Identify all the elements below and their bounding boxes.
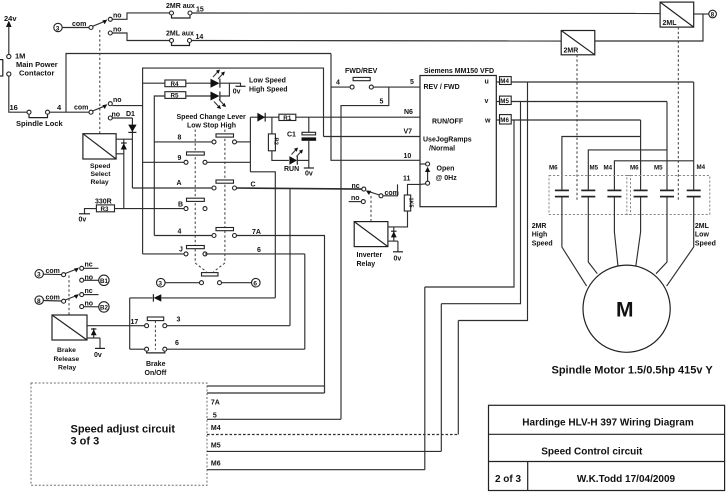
svg-text:no: no — [351, 195, 360, 202]
svg-text:16: 16 — [10, 103, 18, 112]
svg-text:Speed adjust circuit: Speed adjust circuit — [71, 424, 176, 436]
svg-text:4: 4 — [336, 80, 340, 87]
svg-text:0v: 0v — [305, 171, 313, 178]
svg-text:/Normal: /Normal — [429, 146, 455, 153]
svg-text:8: 8 — [178, 135, 182, 142]
svg-text:Select: Select — [91, 171, 112, 178]
svg-text:Brake: Brake — [57, 347, 76, 354]
svg-text:17: 17 — [131, 319, 139, 326]
svg-text:M6: M6 — [549, 165, 558, 172]
svg-text:1K5: 1K5 — [408, 198, 414, 208]
svg-text:3: 3 — [56, 25, 60, 32]
svg-text:24v: 24v — [4, 14, 17, 23]
svg-text:6: 6 — [175, 340, 179, 347]
svg-text:M4: M4 — [604, 165, 613, 172]
svg-text:M4: M4 — [211, 425, 221, 432]
svg-text:Brake: Brake — [146, 361, 166, 368]
svg-text:2ML: 2ML — [695, 223, 710, 230]
svg-text:no: no — [113, 13, 122, 20]
svg-text:M6: M6 — [211, 461, 221, 468]
svg-text:2 of 3: 2 of 3 — [495, 474, 522, 485]
svg-text:Low: Low — [695, 232, 710, 239]
svg-text:D1: D1 — [126, 111, 135, 118]
svg-text:Spindle Motor 1.5/0.5hp 415v: Spindle Motor 1.5/0.5hp 415v Y — [552, 365, 714, 377]
svg-text:High: High — [532, 232, 548, 239]
svg-text:Speed: Speed — [532, 240, 553, 247]
svg-text:M4: M4 — [500, 78, 509, 85]
svg-text:u: u — [485, 79, 489, 86]
svg-text:Relay: Relay — [91, 179, 109, 186]
svg-text:UseJogRamps: UseJogRamps — [423, 137, 472, 144]
svg-text:11: 11 — [403, 176, 411, 183]
svg-text:Low Stop High: Low Stop High — [187, 123, 236, 130]
svg-text:Inverter: Inverter — [357, 252, 383, 259]
svg-text:3 of 3: 3 of 3 — [71, 436, 100, 448]
svg-text:Release: Release — [54, 356, 80, 363]
svg-text:On/Off: On/Off — [145, 370, 167, 377]
svg-text:nc: nc — [85, 288, 93, 295]
svg-text:High Speed: High Speed — [249, 87, 288, 94]
svg-text:B: B — [178, 202, 183, 209]
svg-text:3: 3 — [158, 281, 162, 288]
svg-text:Speed: Speed — [90, 163, 110, 170]
svg-text:5: 5 — [213, 413, 217, 420]
svg-text:0v: 0v — [394, 256, 402, 263]
svg-text:com: com — [74, 105, 88, 112]
svg-text:M6: M6 — [630, 165, 639, 172]
svg-text:B2: B2 — [100, 305, 108, 312]
svg-text:5: 5 — [410, 79, 414, 86]
svg-text:M5: M5 — [211, 443, 221, 450]
svg-text:3: 3 — [37, 272, 41, 279]
svg-text:2MR: 2MR — [532, 223, 547, 230]
svg-text:M6: M6 — [500, 117, 509, 124]
svg-text:0v: 0v — [233, 89, 241, 96]
svg-text:Spindle Lock: Spindle Lock — [16, 119, 64, 128]
svg-text:4: 4 — [178, 229, 182, 236]
svg-text:2MR aux: 2MR aux — [166, 3, 195, 10]
svg-text:V7: V7 — [404, 129, 413, 136]
svg-text:9: 9 — [178, 155, 182, 162]
svg-text:R5: R5 — [171, 93, 180, 100]
svg-text:2ML aux: 2ML aux — [166, 31, 194, 38]
svg-text:M4: M4 — [697, 164, 706, 171]
svg-text:Low Speed: Low Speed — [249, 78, 286, 85]
svg-text:nc: nc — [85, 262, 93, 269]
svg-text:N6: N6 — [404, 109, 413, 116]
svg-text:R1: R1 — [283, 115, 292, 122]
svg-text:M5: M5 — [500, 98, 509, 105]
svg-text:Speed Change Lever: Speed Change Lever — [177, 114, 247, 121]
svg-text:@ 0Hz: @ 0Hz — [436, 175, 458, 182]
svg-text:W.K.Todd 17/04/2009: W.K.Todd 17/04/2009 — [577, 474, 676, 485]
svg-text:8: 8 — [37, 298, 41, 305]
svg-text:no: no — [113, 97, 122, 104]
svg-text:w: w — [484, 118, 491, 125]
svg-text:Hardinge HLV-H 397 Wiring Diag: Hardinge HLV-H 397 Wiring Diagram — [522, 418, 694, 429]
svg-text:R2: R2 — [272, 138, 278, 145]
svg-text:B1: B1 — [100, 278, 108, 285]
svg-text:C1: C1 — [287, 132, 296, 139]
svg-text:7A: 7A — [252, 229, 261, 236]
svg-text:3: 3 — [177, 317, 181, 324]
svg-text:com: com — [72, 21, 86, 28]
svg-text:10: 10 — [404, 153, 412, 160]
svg-text:M5: M5 — [590, 165, 599, 172]
svg-text:RUN: RUN — [284, 166, 299, 173]
svg-text:0v: 0v — [79, 217, 87, 224]
svg-text:6: 6 — [253, 281, 257, 288]
svg-text:v: v — [485, 98, 489, 105]
svg-text:Speed: Speed — [695, 240, 716, 247]
svg-text:Siemens MM150 VFD: Siemens MM150 VFD — [424, 68, 494, 75]
svg-text:0v: 0v — [94, 352, 102, 359]
svg-text:7A: 7A — [211, 400, 220, 407]
svg-text:RUN/OFF: RUN/OFF — [432, 119, 464, 126]
svg-text:M: M — [616, 299, 634, 322]
svg-text:5: 5 — [380, 99, 384, 106]
svg-text:Speed Control circuit: Speed Control circuit — [541, 447, 643, 458]
svg-text:Contactor: Contactor — [19, 69, 54, 78]
svg-text:2ML: 2ML — [663, 20, 678, 27]
svg-text:nc: nc — [352, 183, 360, 190]
svg-text:REV / FWD: REV / FWD — [424, 84, 460, 91]
svg-text:6: 6 — [257, 247, 261, 254]
svg-text:A: A — [177, 180, 182, 187]
svg-text:J: J — [179, 247, 183, 254]
svg-text:FWD/REV: FWD/REV — [345, 68, 378, 75]
svg-text:2MR: 2MR — [564, 48, 579, 55]
svg-text:Relay: Relay — [357, 261, 376, 268]
svg-text:R3: R3 — [101, 206, 110, 213]
svg-text:M5: M5 — [654, 165, 663, 172]
svg-text:Relay: Relay — [58, 365, 76, 372]
svg-text:Open: Open — [437, 166, 455, 173]
svg-text:R4: R4 — [171, 81, 180, 88]
